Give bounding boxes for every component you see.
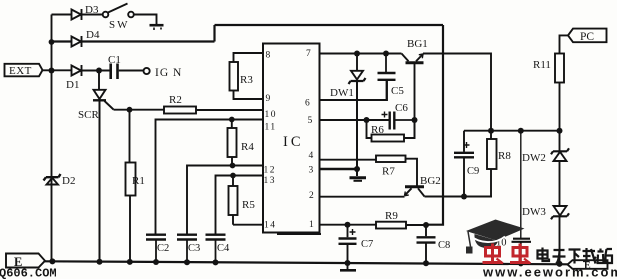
diode D1: [72, 65, 82, 76]
svg-text:R9: R9: [385, 210, 398, 222]
terminal IGN: [144, 68, 150, 74]
wire: D4 branch: [52, 25, 444, 42]
ground (pin 3): [350, 178, 367, 181]
svg-text:EXT: EXT: [9, 65, 32, 77]
label R7: [382, 166, 395, 178]
wire: pin 7 to BG1: [320, 53, 402, 55]
pin 8: [266, 51, 271, 61]
node: bus junction SCR column: [97, 259, 103, 265]
wire: SCR gate to R2: [114, 109, 165, 111]
zener DW1: [349, 54, 366, 85]
svg-text:2: 2: [309, 191, 314, 201]
svg-text:D3: D3: [85, 4, 99, 16]
wire: pin 12 to C3: [187, 166, 263, 234]
svg-text:7: 7: [306, 49, 311, 59]
svg-text:C5: C5: [391, 85, 404, 97]
pin 5: [308, 116, 313, 126]
label R9: [385, 210, 398, 222]
node: junction C6 right / BG1 base: [412, 117, 418, 123]
label C10: [489, 238, 507, 249]
node: junction C5 top: [383, 51, 389, 57]
resistor R8: [487, 131, 497, 197]
capacitor C9: [454, 131, 474, 197]
wire: pin 8 to R3 top: [234, 53, 264, 62]
resistor R7: [376, 156, 406, 163]
wire: pin 11 to C2: [156, 120, 264, 234]
node: junction R1 top: [127, 107, 133, 113]
label C3: [188, 243, 200, 254]
ground (after SW): [150, 25, 164, 30]
wire: R3 bottom to pin 9: [234, 91, 264, 100]
label C9: [467, 166, 479, 177]
svg-text:11: 11: [265, 123, 277, 133]
capacitor C5: [378, 54, 396, 101]
svg-text:C1: C1: [108, 54, 121, 66]
label C2: [157, 243, 169, 254]
bottom bus wire: [45, 261, 568, 264]
label BG1: [407, 38, 428, 50]
wire: pin 4 to R7: [320, 159, 377, 161]
label D1: [66, 79, 79, 91]
svg-text:IC: IC: [283, 134, 304, 150]
label E (right): [584, 261, 591, 272]
IC box: [263, 44, 320, 233]
wire: left vertical bus from D3 branch down to bottom bus: [51, 15, 53, 262]
label D3: [85, 4, 99, 16]
terminal tag E (left): [6, 254, 45, 268]
resistor R9: [376, 222, 406, 229]
svg-text:D4: D4: [86, 29, 100, 41]
capacitor C7: [339, 225, 357, 263]
label DW2: [522, 152, 546, 164]
svg-text:DW2: DW2: [522, 152, 546, 164]
pin 6: [305, 99, 310, 109]
wire: pin 13 to C4: [216, 176, 264, 234]
node: junction BG1 emitter column: [488, 128, 494, 134]
label C7: [361, 239, 373, 250]
label SW: [109, 19, 130, 31]
svg-text:R4: R4: [241, 141, 254, 153]
pin 11: [265, 123, 277, 133]
resistor R6: [367, 120, 415, 142]
svg-text:3: 3: [309, 166, 314, 176]
svg-text:R7: R7: [382, 166, 395, 178]
svg-text:1: 1: [309, 220, 314, 230]
node: junction R9/C8/rail: [423, 222, 429, 228]
pin 4: [309, 151, 314, 161]
svg-text:BG1: BG1: [407, 38, 428, 50]
svg-text:9: 9: [266, 94, 271, 104]
pin 10: [265, 110, 278, 120]
node: bus junction C10: [518, 261, 523, 266]
svg-text:12: 12: [264, 166, 277, 176]
svg-text:14: 14: [264, 221, 277, 231]
zener DW3: [551, 206, 569, 264]
label C6 (plus sign): [382, 112, 388, 118]
svg-text:13: 13: [264, 176, 277, 186]
watermark: red character chong (1): [483, 244, 504, 264]
label R6: [371, 124, 384, 136]
label DW3: [522, 206, 546, 218]
resistor R5: [229, 176, 238, 225]
node: junction R4 bottom: [230, 163, 236, 169]
pin 7: [306, 49, 311, 59]
watermark: red character chong (2): [510, 244, 531, 264]
thyristor SCR: [93, 71, 114, 262]
node: junction C7 top: [345, 222, 351, 228]
svg-text:R5: R5: [242, 199, 255, 211]
capacitor C2: [146, 235, 166, 262]
capacitor C3: [177, 235, 197, 262]
wire: R2 to IC pin 10: [196, 109, 263, 111]
node: junction pin3/DW1 vertical: [354, 166, 360, 172]
node: bus junction C8: [423, 260, 429, 266]
label R2: [169, 94, 182, 106]
wire: PC to R11: [560, 35, 569, 53]
wire: pin 6 to C5 bottom: [320, 80, 388, 100]
pin 3: [309, 166, 314, 176]
pin 1: [309, 220, 314, 230]
transistor BG2: [405, 187, 425, 197]
label C6: [395, 102, 408, 114]
label R3: [240, 74, 253, 86]
label D2: [62, 175, 75, 187]
pin 12: [264, 166, 277, 176]
svg-text:D2: D2: [62, 175, 75, 187]
svg-text:10: 10: [265, 110, 278, 120]
node: bus junction C2: [153, 259, 159, 265]
IC bottom edge thick segment: [277, 233, 321, 235]
svg-text:C4: C4: [217, 243, 230, 254]
svg-text:6: 6: [305, 99, 310, 109]
pin 13: [264, 176, 277, 186]
label EXT: [9, 65, 32, 77]
svg-text:C2: C2: [157, 243, 169, 254]
node: junction R5 top: [230, 173, 236, 179]
label R5: [242, 199, 255, 211]
resistor R11: [555, 54, 564, 131]
svg-text:8: 8: [266, 51, 271, 61]
svg-text:R2: R2: [169, 94, 182, 106]
terminal tag EXT: [5, 64, 43, 77]
svg-text:R1: R1: [132, 175, 145, 187]
wire: pin 5 to C6: [320, 119, 389, 121]
watermark: graduation cap logo: [466, 220, 525, 254]
node: junction D4/left bus: [49, 39, 55, 45]
label R11: [533, 59, 551, 71]
label C1: [108, 54, 121, 66]
svg-text:IG N: IG N: [155, 67, 182, 79]
node: junction pin5/R6/C6 left: [364, 117, 370, 123]
zener D2: [44, 174, 61, 185]
svg-text:www.eeworm.com: www.eeworm.com: [482, 265, 617, 279]
ground (below bus at C7): [340, 263, 356, 270]
svg-text:R8: R8: [498, 150, 511, 162]
svg-text:DW3: DW3: [522, 206, 546, 218]
wire: SW to ground: [134, 15, 157, 25]
svg-text:Q606.COM: Q606.COM: [0, 267, 57, 279]
wire: EXT to D1 to C1: [43, 69, 144, 71]
capacitor C4: [206, 235, 226, 262]
zener DW2: [551, 131, 569, 206]
svg-text:C3: C3: [188, 243, 200, 254]
pin 9: [266, 94, 271, 104]
node: junction SCR anode tap: [96, 68, 102, 74]
diode D4: [72, 36, 82, 47]
terminal tag PC: [568, 29, 607, 43]
capacitor C10: [512, 131, 532, 264]
wire: battery rail right vertical down to R9: [426, 25, 443, 225]
svg-text:PC: PC: [580, 31, 594, 43]
node: bus junction C4: [213, 259, 219, 265]
svg-text:C6: C6: [395, 102, 408, 114]
label R1: [132, 175, 145, 187]
label C4: [217, 243, 230, 254]
node: junction C10 column: [518, 128, 524, 134]
pin 2: [309, 191, 314, 201]
svg-text:D1: D1: [66, 79, 79, 91]
node: bus junction DW3: [557, 261, 563, 267]
wire: R7 right to BG2 base: [406, 159, 418, 187]
switch SW: [103, 4, 134, 18]
terminal tag E (right): [568, 260, 608, 269]
node: junction R11/DW2 column: [557, 128, 563, 134]
svg-text:C7: C7: [361, 239, 373, 250]
svg-text:R6: R6: [371, 124, 384, 136]
svg-text:SW: SW: [109, 19, 130, 31]
svg-text:SCR: SCR: [78, 109, 99, 121]
watermark: black text dian-zi-xia-zai-zhan: [538, 248, 613, 264]
svg-text:C9: C9: [467, 166, 479, 177]
label R4: [241, 141, 254, 153]
resistor R4: [228, 120, 237, 166]
transistor BG1: [402, 54, 424, 139]
label PC: [580, 31, 594, 43]
resistor R2: [164, 107, 196, 114]
watermark: Q606.COM: [0, 267, 57, 279]
wire: pin 1 to R9: [320, 224, 377, 226]
wire: BG1 emitter to output column: [423, 54, 491, 131]
capacitor C6: [390, 112, 415, 130]
label C5: [391, 85, 404, 97]
wire: BG2 collector to R8 bottom: [425, 196, 493, 198]
label D4: [86, 29, 100, 41]
resistor R3: [230, 62, 239, 91]
pin 14: [264, 221, 277, 231]
svg-text:C8: C8: [438, 240, 450, 251]
node: junction EXT/left bus: [49, 68, 55, 74]
wire: pin 3 to ground: [320, 168, 358, 170]
node: bus junction C3: [184, 259, 190, 265]
node: junction C9 bottom: [461, 194, 467, 200]
label C9 (plus sign): [464, 142, 470, 148]
node: bus junction R1 column: [127, 259, 133, 265]
wire: DW1 bottom vertical down to pin3 node and ground: [356, 82, 358, 176]
node: bus junction left column: [49, 258, 55, 264]
svg-text:R3: R3: [240, 74, 253, 86]
label C8: [438, 240, 450, 251]
label R8: [498, 150, 511, 162]
watermark: red url www.eeworm.com: [482, 265, 617, 279]
wire: R5 bottom to pin 14: [233, 224, 263, 226]
label C7 (plus sign): [350, 229, 356, 235]
capacitor C1: [111, 64, 118, 80]
node: junction DW1 top: [354, 51, 360, 57]
resistor R1: [126, 110, 136, 262]
svg-text:R11: R11: [533, 59, 551, 71]
capacitor C8: [417, 225, 436, 263]
svg-text:DW1: DW1: [330, 87, 354, 99]
label IC: [283, 134, 304, 150]
label IGN: [155, 67, 182, 79]
label BG2: [420, 175, 441, 187]
diode D3: [72, 9, 82, 20]
label E: [14, 255, 22, 269]
label DW1: [330, 87, 354, 99]
wire: output node horizontal: [464, 130, 560, 132]
svg-text:BG2: BG2: [420, 175, 441, 187]
svg-text:4: 4: [309, 151, 314, 161]
wire: R9 right to rail: [406, 224, 426, 226]
node: bus junction C7: [345, 260, 351, 266]
svg-text:5: 5: [308, 116, 313, 126]
wire: pin 2 to BG2 emitter: [320, 196, 405, 198]
label SCR: [78, 109, 99, 121]
node: junction R4 top: [229, 117, 235, 123]
wire: D3 branch top: [52, 14, 103, 16]
